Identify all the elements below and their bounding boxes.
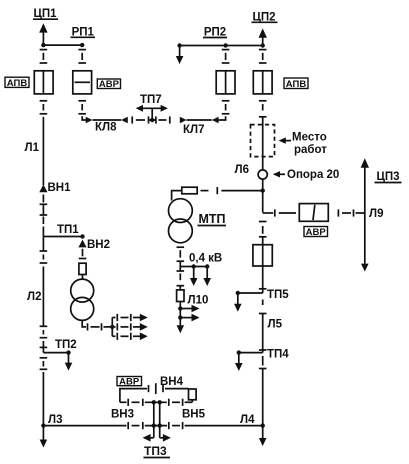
- svg-text:Место: Место: [292, 132, 327, 144]
- work zone pointer arrow: [279, 137, 291, 143]
- wire ТП1 lv stub: [82, 320, 86, 327]
- junction dot Л4: [261, 423, 265, 427]
- svg-text:АВР: АВР: [306, 227, 327, 238]
- svg-text:Л5: Л5: [268, 319, 283, 331]
- svg-text:МТП: МТП: [199, 212, 226, 226]
- wire pole to МТП tap: [262, 179, 264, 212]
- feeder arrow Л10 a: [180, 305, 199, 313]
- cable arrow КЛ7 left: [180, 117, 187, 124]
- lv feeder row 3: [112, 333, 148, 341]
- svg-text:Л3: Л3: [48, 414, 62, 426]
- junction dot ТП1: [80, 234, 84, 238]
- wire line Л4: [262, 369, 264, 426]
- svg-text:Опора 20: Опора 20: [287, 169, 339, 181]
- lv bus ТП1: [111, 318, 113, 337]
- node РП1 underline: [71, 36, 96, 38]
- disconnector ТП7-КЛ7: [156, 116, 170, 123]
- cable arrow КЛ8 right: [121, 117, 128, 124]
- svg-text:КЛ8: КЛ8: [95, 122, 117, 134]
- wire Л9 to ЦП3: [356, 212, 365, 214]
- junction dot ЦП1 bus: [41, 43, 45, 47]
- disconnector КЛ8-ТП7: [132, 116, 148, 123]
- disconnector on Л2 bottom: [40, 326, 48, 337]
- lv feeder row 2: [112, 323, 148, 331]
- source arrow ЦП2: [259, 28, 267, 45]
- disconnector on ЦП1 feeder: [40, 50, 48, 63]
- disconnector bottom left of ТП3: [128, 422, 143, 429]
- disconnector ТП1 lv: [88, 323, 102, 330]
- svg-text:РП2: РП2: [204, 26, 226, 38]
- node РП1 column disconnector upper: [78, 50, 86, 63]
- disconnector below Q4: [259, 101, 267, 117]
- breaker cell Q1 (АПВ): [34, 71, 53, 94]
- feeder arrow 0,4кВ b: [203, 267, 211, 287]
- disconnector below Q2: [78, 101, 86, 114]
- disconnector bottom right of ТП3: [169, 422, 183, 429]
- svg-text:Л9: Л9: [369, 208, 383, 220]
- svg-text:ТП5: ТП5: [267, 289, 289, 301]
- wire to ТП1: [42, 227, 44, 252]
- fuse F4 ВН5: [189, 389, 197, 402]
- switch ВН1: [39, 184, 47, 192]
- junction dot ТП3 a: [152, 400, 156, 404]
- junction dot РП2 column: [223, 43, 227, 47]
- disconnector below ТП5: [259, 300, 267, 314]
- disconnector below МТП: [177, 247, 185, 261]
- ТП3 lower tie bus: [120, 399, 192, 406]
- МТП fuse feeder wire: [201, 187, 263, 194]
- source arrow ЦП1: [39, 23, 47, 32]
- svg-text:ВН1: ВН1: [48, 182, 72, 194]
- breaker cell Q3 РП2: [216, 71, 235, 94]
- svg-text:ТП2: ТП2: [55, 339, 77, 351]
- wire to 0,4 кВ bus: [179, 261, 181, 266]
- svg-text:ТП4: ТП4: [267, 349, 289, 361]
- svg-text:АПВ: АПВ: [7, 78, 28, 89]
- svg-text:АВР: АВР: [99, 79, 120, 90]
- cable arrow КЛ7 right: [212, 117, 219, 124]
- disconnector tick left arm: [148, 385, 150, 392]
- feeder arrow Л10 down: [177, 325, 185, 333]
- junction dot Л10 a: [178, 306, 182, 310]
- wire fuse to transformer: [172, 191, 182, 201]
- svg-text:Л10: Л10: [188, 295, 209, 307]
- wire to lv bus: [104, 326, 113, 328]
- branch ТП1 wire: [43, 236, 82, 238]
- disconnector ЦП2 upper: [259, 50, 267, 63]
- breaker cell Q2 open (АВР): [73, 71, 92, 94]
- junction dot ТП3 c: [152, 423, 156, 427]
- switch ВН2: [78, 240, 86, 248]
- junction dot РП2 bus left: [177, 43, 181, 47]
- cable arrow КЛ8 left: [86, 117, 93, 124]
- branch ТП4: [235, 350, 263, 371]
- disconnector tick above ТП5: [259, 288, 267, 290]
- disconnector tick above ТП4: [259, 349, 267, 351]
- svg-text:ВН3: ВН3: [111, 409, 134, 421]
- disconnector tick above ТП2: [40, 346, 48, 348]
- node ЦП3 label: [375, 171, 402, 183]
- svg-text:ТП3: ТП3: [144, 444, 167, 458]
- fuse F2 Л10: [177, 290, 184, 302]
- ТП3 feeder arrow left: [143, 434, 154, 442]
- ТП3 upper tie right arm: [163, 385, 189, 392]
- wire КЛ7: [187, 119, 212, 121]
- breaker cell Q6 Л9: [299, 204, 328, 222]
- junction dot ТП3 d: [158, 423, 162, 427]
- ЦП2 column: disconnector above tap rect: [259, 222, 267, 237]
- ТП3 feeder arrow right: [160, 434, 171, 442]
- feeder arrow РП2 left: [176, 46, 184, 65]
- ТП7 double arrow bus: [136, 105, 168, 112]
- wire corner КЛ7 to РП2: [219, 116, 226, 120]
- node ТП7 junction: [149, 108, 156, 122]
- wire Л10 down: [179, 302, 181, 327]
- node РП2 underline: [203, 37, 227, 39]
- pole Опора 20 circle: [258, 170, 267, 179]
- bottom trunk wire center: [145, 425, 167, 427]
- junction dot Л3: [41, 423, 45, 427]
- node ЦП2 underline: [252, 21, 278, 23]
- svg-text:Л2: Л2: [27, 291, 41, 303]
- junction dot 0,4кВ a: [192, 264, 196, 268]
- svg-text:Л4: Л4: [240, 414, 255, 426]
- transformer ТП1: [71, 279, 94, 320]
- junction dot lv bus: [110, 325, 114, 329]
- pole pointer arrow: [273, 171, 285, 177]
- junction dot ЦП2 bus: [261, 43, 265, 47]
- label box АПВ right: [284, 78, 308, 90]
- svg-text:КЛ7: КЛ7: [183, 124, 204, 136]
- work zone dashed box (Место работ): [251, 125, 275, 157]
- junction dot МТП tap: [261, 188, 265, 192]
- junction dot ТП3 b: [158, 400, 162, 404]
- fuse F1 МТП: [182, 187, 197, 194]
- svg-text:ТП1: ТП1: [57, 224, 79, 236]
- wire КЛ8: [93, 119, 122, 121]
- label box АВР mid: [304, 227, 328, 239]
- wire Q5 to ТП5: [262, 266, 264, 293]
- load arrow bottom left: [40, 426, 48, 448]
- label box АВР bottom: [117, 376, 142, 387]
- РП2 bus wire: [180, 45, 263, 47]
- disconnector below ТП4: [259, 356, 267, 369]
- node ЦП3 line: [361, 158, 369, 271]
- disconnector below ВН1: [40, 195, 48, 225]
- svg-text:АПВ: АПВ: [286, 79, 307, 90]
- disconnector below Q1: [40, 101, 48, 114]
- wire fuse to transformer ТП1: [82, 275, 84, 280]
- node ЦП1 underline: [33, 18, 58, 20]
- wire line Л2: [42, 267, 44, 327]
- wire line Л3: [42, 372, 44, 426]
- disconnector Л9 right: [338, 209, 353, 216]
- feeder arrow 0,4кВ a: [190, 267, 198, 287]
- wire Л9 from ЦП2: [263, 209, 296, 216]
- svg-text:0,4 кВ: 0,4 кВ: [189, 253, 222, 265]
- 0,4 кВ bus: [180, 266, 207, 268]
- label МТП: [198, 212, 227, 226]
- svg-text:работ: работ: [294, 144, 327, 156]
- branch ТП5: [234, 291, 263, 312]
- branch ТП2: [43, 350, 72, 370]
- bottom trunk wire right: [185, 425, 263, 427]
- ТП3 riser left: [153, 402, 155, 438]
- junction dot РП1 bus: [80, 43, 84, 47]
- wire through work zone: [262, 117, 264, 170]
- breaker cell Q5: [253, 237, 272, 266]
- label box АВР top: [97, 79, 120, 90]
- svg-text:Л6: Л6: [235, 164, 249, 176]
- disconnector Л10 top: [177, 267, 185, 290]
- label Место работ: [292, 132, 327, 156]
- feeder arrow Л10 b: [180, 314, 199, 322]
- svg-text:ВН5: ВН5: [182, 409, 206, 421]
- label ТП3: [144, 444, 171, 458]
- disconnector below ТП2: [40, 358, 48, 370]
- junction dot 0,4кВ b: [205, 264, 209, 268]
- wire line Л5: [262, 314, 264, 353]
- breaker cell Q4 ЦП2: [253, 71, 272, 94]
- disconnector РП2 column upper: [222, 50, 230, 63]
- disconnector on Л2 top: [40, 251, 48, 263]
- transformer МТП: [169, 199, 193, 243]
- disconnector below Q3: [222, 101, 230, 114]
- svg-text:АВР: АВР: [119, 376, 140, 387]
- ТП3 riser right: [159, 402, 161, 438]
- svg-text:ЦП3: ЦП3: [376, 171, 399, 183]
- wire tie ЦП1-РП1: [43, 44, 82, 46]
- label box АПВ left: [5, 77, 29, 89]
- bottom trunk wire left: [43, 425, 126, 427]
- svg-text:Л1: Л1: [25, 142, 40, 154]
- ТП3 upper tie left arm: [120, 389, 147, 403]
- wire line Л1: [42, 117, 44, 185]
- svg-text:ВН2: ВН2: [87, 239, 110, 251]
- svg-text:ТП7: ТП7: [140, 94, 162, 106]
- disconnector below ВН2: [79, 249, 87, 259]
- fuse F3 ТП1: [79, 263, 86, 274]
- lv feeder row 1: [112, 314, 148, 322]
- wire to ТП2: [42, 341, 44, 353]
- junction dot Л10 b: [178, 315, 182, 319]
- switch ВН4 open gap: [155, 383, 157, 394]
- load arrow bottom right: [259, 426, 267, 446]
- wire corner РП1 to КЛ8: [82, 116, 86, 120]
